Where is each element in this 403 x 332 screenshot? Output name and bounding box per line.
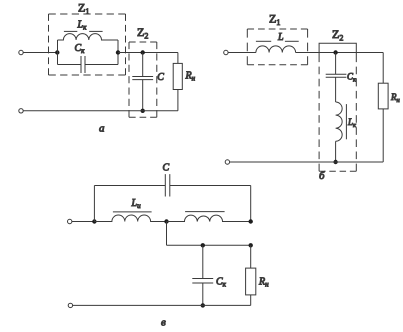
svg-text:Cк: Cк bbox=[347, 72, 357, 84]
wire C top lead a bbox=[142, 53, 144, 77]
inductor Lk b bbox=[336, 102, 343, 141]
resistor Rn a bbox=[173, 63, 182, 89]
wire input top a bbox=[23, 52, 57, 54]
label line left L b bbox=[256, 40, 271, 42]
wire middle drop v bbox=[166, 222, 168, 246]
svg-text:Z2: Z2 bbox=[332, 27, 343, 43]
svg-text:Rн: Rн bbox=[185, 71, 196, 83]
wire load bottom b bbox=[382, 109, 384, 162]
box Z1 b bbox=[247, 29, 307, 65]
label line L2 v bbox=[185, 211, 225, 213]
svg-text:Cк: Cк bbox=[216, 277, 227, 289]
svg-text:Z1: Z1 bbox=[269, 12, 280, 28]
node rail Ck v bbox=[201, 243, 205, 247]
node bottom of C a bbox=[141, 109, 145, 113]
wire middle rail v bbox=[167, 244, 251, 246]
svg-text:C: C bbox=[163, 163, 170, 174]
node top of C a bbox=[141, 50, 145, 54]
inductor Lk a bbox=[58, 34, 119, 40]
inductor L2 v bbox=[167, 215, 251, 221]
svg-text:C: C bbox=[157, 72, 164, 83]
wire Rn bottom lead v bbox=[250, 295, 252, 306]
wire top branch left v bbox=[94, 185, 165, 187]
svg-text:в: в bbox=[161, 317, 166, 328]
wire load drop b bbox=[382, 53, 384, 84]
node bottom Ck v bbox=[201, 303, 205, 307]
terminal input top b bbox=[224, 50, 228, 54]
terminal input bottom a bbox=[19, 109, 23, 113]
wire input top b bbox=[228, 52, 256, 54]
box Z2 b right edge bbox=[355, 55, 357, 172]
wire Lk bottom lead b bbox=[335, 141, 337, 162]
wire tank bottom right a bbox=[85, 64, 118, 66]
wire Ck to Lk b bbox=[335, 77, 337, 102]
resistor Rn v bbox=[246, 268, 256, 295]
svg-text:Lк: Lк bbox=[347, 117, 357, 129]
wire top branch right v bbox=[170, 185, 251, 187]
inductor L b bbox=[256, 46, 296, 53]
terminal input bottom v bbox=[68, 303, 72, 307]
wire tank left edge a bbox=[57, 40, 59, 65]
wire bottom a bbox=[23, 110, 178, 112]
svg-text:Z1: Z1 bbox=[78, 1, 89, 17]
svg-text:Lк: Lк bbox=[77, 20, 88, 32]
terminal input top v bbox=[68, 219, 72, 223]
wire Ck bottom lead v bbox=[202, 283, 204, 305]
svg-text:Lи: Lи bbox=[131, 198, 142, 210]
svg-text:б: б bbox=[319, 170, 325, 182]
svg-text:Cк: Cк bbox=[75, 43, 86, 55]
capacitor C a bbox=[132, 77, 153, 80]
wire right drop v bbox=[250, 186, 252, 222]
capacitor Ck b bbox=[326, 74, 347, 77]
box Z2 b bottom edge bbox=[319, 170, 356, 172]
wire input top v bbox=[72, 221, 95, 223]
label line Lk b bbox=[345, 104, 347, 139]
node left of tank a bbox=[55, 50, 59, 54]
wire C bottom lead a bbox=[142, 80, 144, 111]
box Z2 b left edge bbox=[318, 55, 320, 172]
node top of Z2 branch b bbox=[333, 50, 337, 54]
capacitor C v bbox=[165, 174, 170, 196]
node input v bbox=[92, 219, 96, 223]
wire Ck top lead b bbox=[335, 53, 337, 75]
node right of tank a bbox=[116, 50, 120, 54]
wire bottom b bbox=[230, 161, 384, 163]
svg-text:Rн: Rн bbox=[258, 277, 269, 289]
wire tank right edge a bbox=[117, 40, 119, 65]
label line right L b bbox=[285, 40, 299, 42]
box Z1 a bbox=[49, 14, 126, 75]
terminal input top a bbox=[19, 50, 23, 54]
label line left Lk a bbox=[64, 30, 77, 32]
wire Ck top lead v bbox=[202, 245, 204, 278]
label line L1 v bbox=[113, 211, 152, 213]
wire riser left v bbox=[93, 186, 95, 222]
svg-text:L: L bbox=[277, 32, 284, 43]
node rail Rn v bbox=[249, 243, 253, 247]
wire Rn top lead v bbox=[250, 245, 252, 268]
wire top a to load bbox=[118, 52, 178, 54]
wire load drop a bbox=[177, 53, 179, 64]
label line right Lk a bbox=[89, 30, 102, 32]
wire tank bottom left a bbox=[58, 64, 82, 66]
wire top b to load bbox=[296, 52, 384, 54]
node right v bbox=[249, 219, 253, 223]
svg-text:а: а bbox=[99, 123, 105, 135]
inductor L1 v bbox=[94, 215, 166, 221]
terminal input bottom b bbox=[225, 160, 229, 164]
capacitor Ck a bbox=[81, 56, 85, 73]
wire bottom v bbox=[73, 304, 251, 306]
svg-text:Z2: Z2 bbox=[137, 25, 148, 41]
box Z2 a bbox=[129, 42, 157, 117]
box Z2 b top edge bbox=[319, 43, 356, 54]
resistor Rn b bbox=[378, 83, 388, 109]
node middle v bbox=[164, 219, 168, 223]
wire load bottom a bbox=[177, 90, 179, 111]
capacitor Ck v bbox=[192, 279, 213, 284]
svg-text:Rн: Rн bbox=[390, 92, 400, 104]
node bottom of Z2 branch b bbox=[333, 160, 337, 164]
